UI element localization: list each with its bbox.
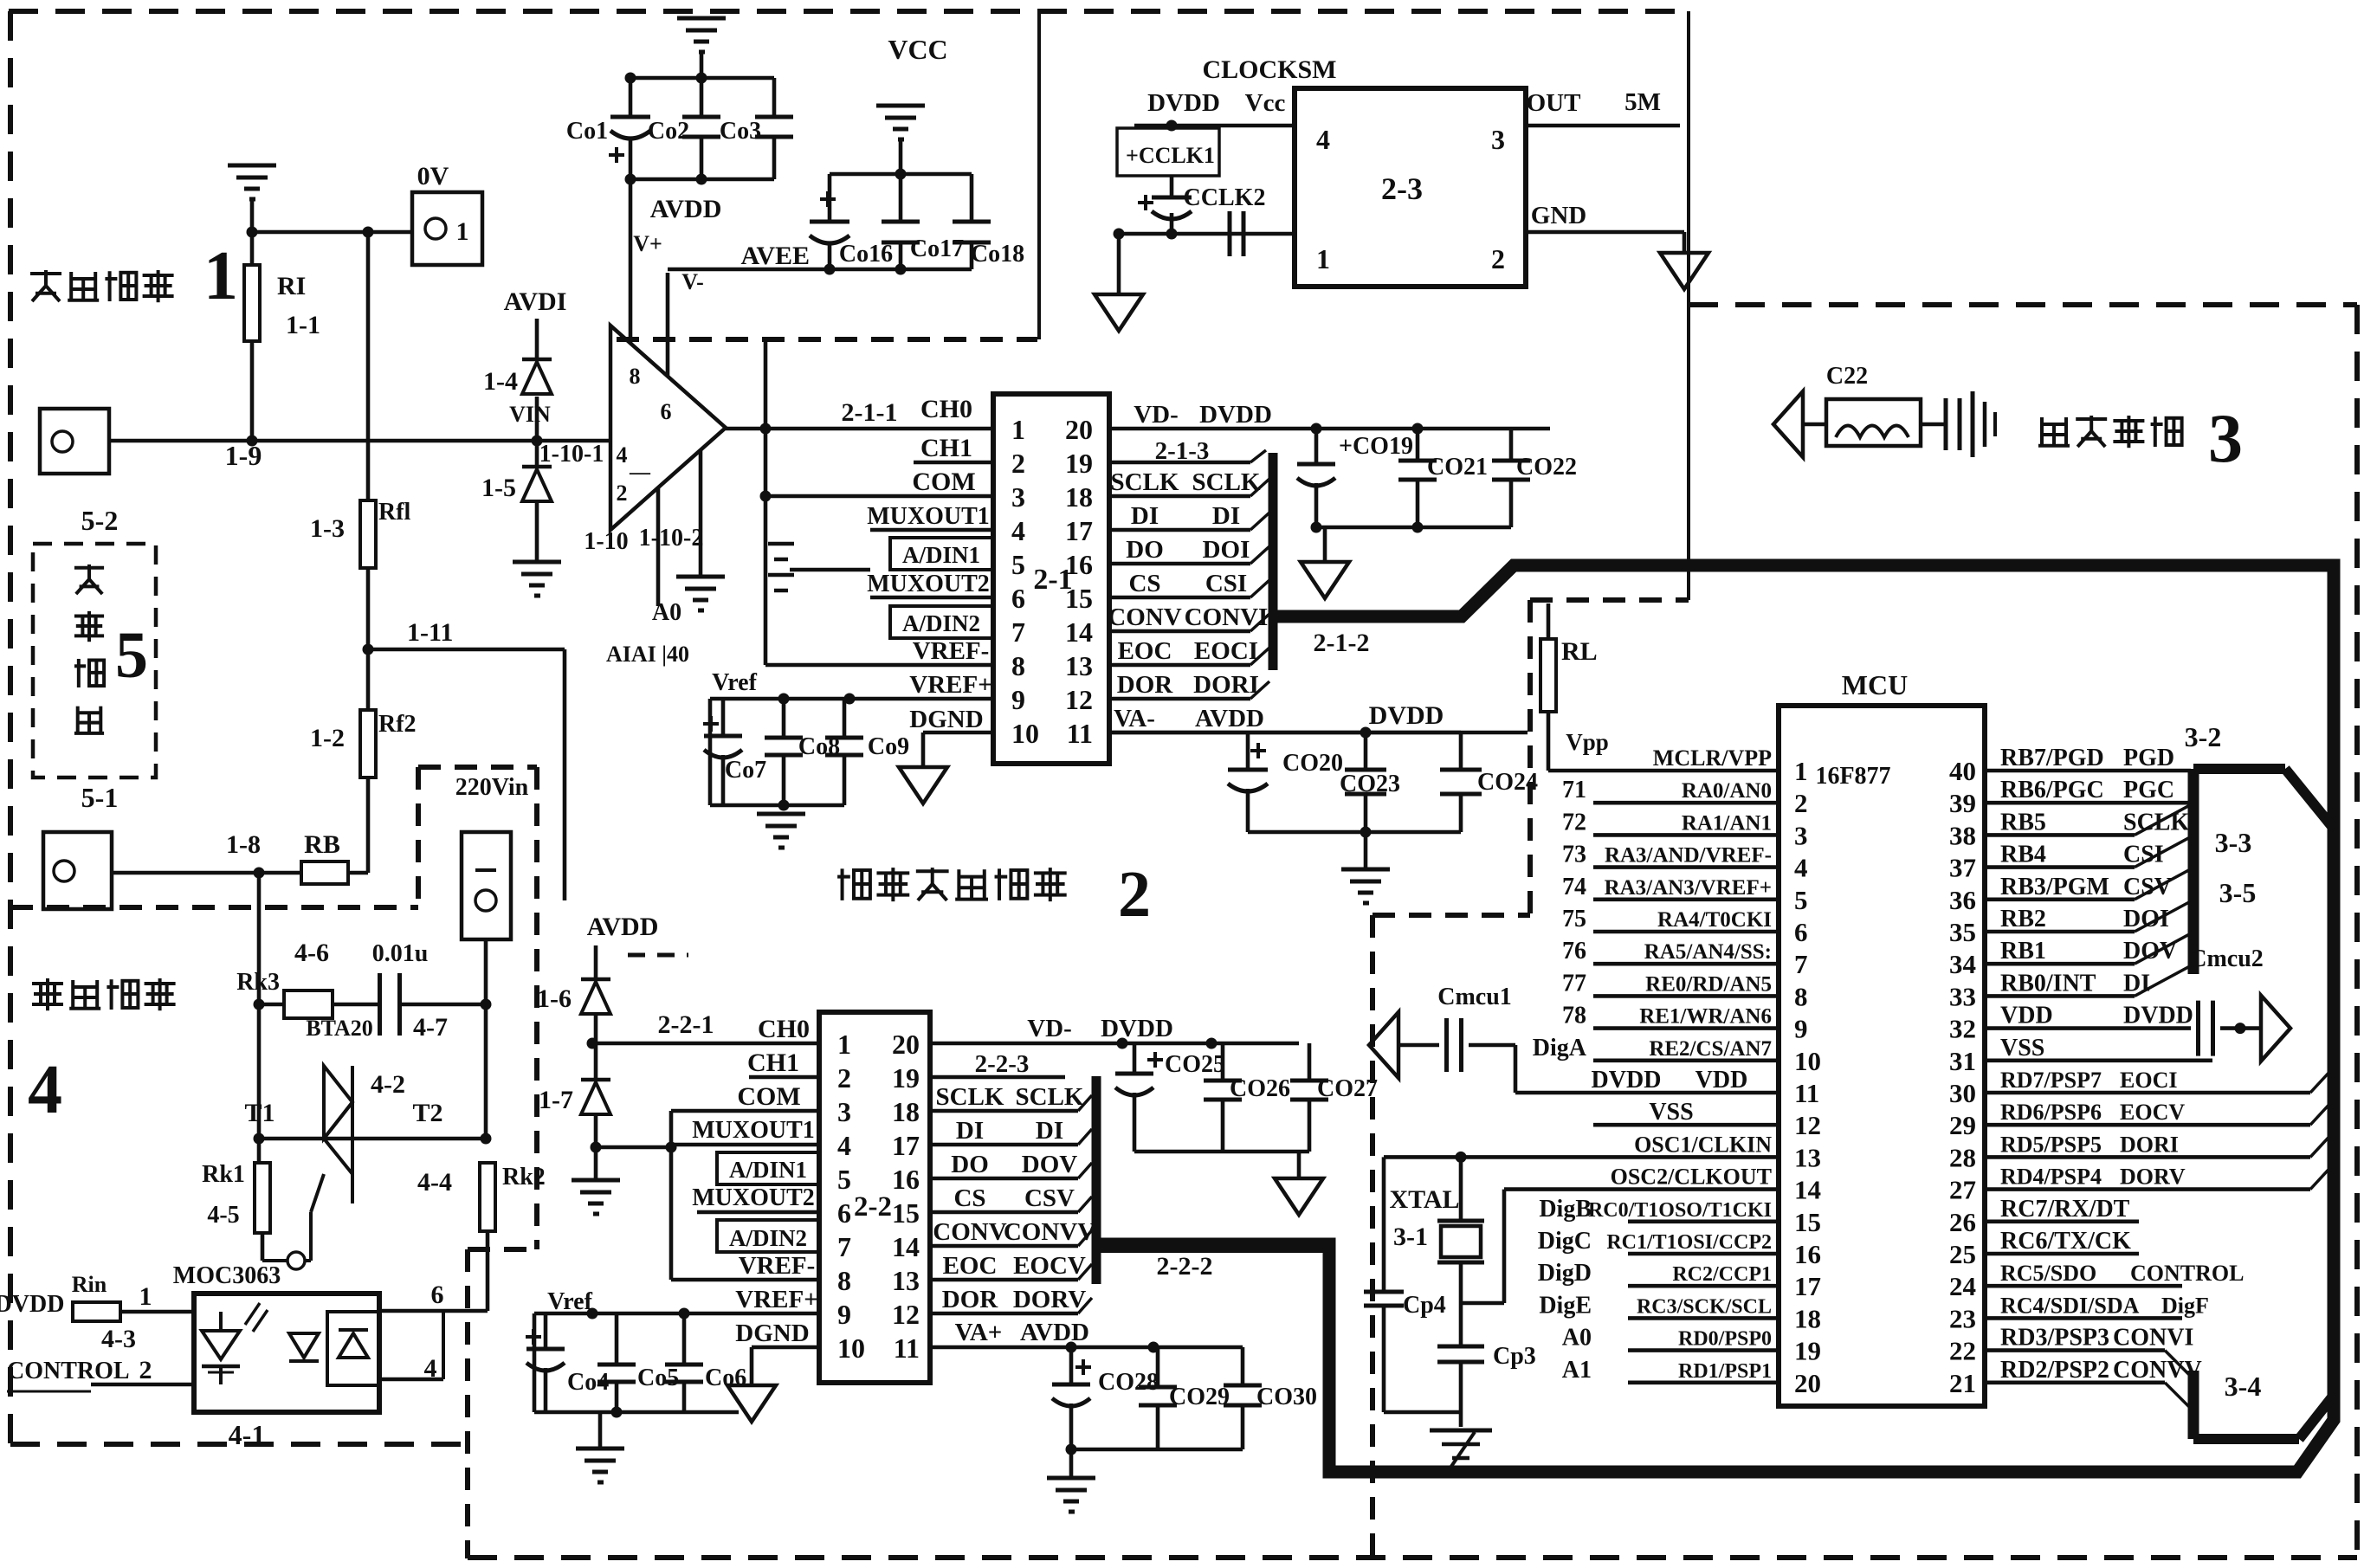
svg-text:DigB: DigB xyxy=(1539,1196,1592,1223)
svg-text:CH1: CH1 xyxy=(920,434,972,462)
svg-text:CCLK2: CCLK2 xyxy=(1184,184,1266,211)
svg-text:OSC1/CLKIN: OSC1/CLKIN xyxy=(1634,1132,1772,1157)
svg-text:EOC: EOC xyxy=(943,1252,998,1280)
svg-text:18: 18 xyxy=(1794,1303,1821,1333)
svg-text:75: 75 xyxy=(1562,906,1586,932)
svg-text:PGC: PGC xyxy=(2123,777,2174,803)
svg-text:CO28: CO28 xyxy=(1098,1369,1159,1396)
svg-text:5-1: 5-1 xyxy=(81,782,119,813)
svg-text:Co9: Co9 xyxy=(868,733,909,760)
svg-text:DigD: DigD xyxy=(1538,1260,1592,1287)
svg-text:CO25: CO25 xyxy=(1165,1051,1225,1078)
svg-text:VA+: VA+ xyxy=(955,1319,1003,1346)
svg-text:DORI: DORI xyxy=(2120,1132,2179,1157)
svg-text:30: 30 xyxy=(1949,1078,1976,1108)
svg-text:EOCV: EOCV xyxy=(2120,1100,2185,1125)
svg-text:2: 2 xyxy=(1011,448,1025,479)
svg-text:3: 3 xyxy=(1491,124,1505,155)
svg-text:VD-: VD- xyxy=(1027,1015,1072,1042)
svg-text:CO20: CO20 xyxy=(1282,750,1343,777)
svg-text:BTA20: BTA20 xyxy=(306,1016,373,1041)
svg-text:DOV: DOV xyxy=(1022,1151,1078,1178)
svg-text:RB2: RB2 xyxy=(2000,906,2046,932)
svg-text:1-6: 1-6 xyxy=(537,984,572,1013)
svg-text:EOC: EOC xyxy=(1118,637,1172,665)
svg-text:2-1-2: 2-1-2 xyxy=(1314,629,1370,657)
svg-text:VDD: VDD xyxy=(2000,1003,2053,1029)
svg-text:A1: A1 xyxy=(1562,1357,1592,1384)
svg-text:6: 6 xyxy=(1011,583,1025,614)
svg-text:20: 20 xyxy=(1794,1368,1821,1398)
svg-text:33: 33 xyxy=(1949,981,1976,1011)
svg-text:4-3: 4-3 xyxy=(101,1325,136,1353)
svg-text:4-6: 4-6 xyxy=(294,939,329,967)
svg-text:CO29: CO29 xyxy=(1169,1384,1230,1410)
svg-text:VIN: VIN xyxy=(509,402,551,427)
svg-text:1-11: 1-11 xyxy=(407,618,453,647)
svg-text:DOI: DOI xyxy=(2123,906,2169,932)
svg-text:73: 73 xyxy=(1562,842,1586,868)
svg-text:7: 7 xyxy=(1794,949,1808,979)
svg-text:3-4: 3-4 xyxy=(2225,1371,2262,1402)
svg-text:RC7/RX/DT: RC7/RX/DT xyxy=(2000,1196,2130,1223)
svg-text:8: 8 xyxy=(1794,981,1808,1011)
svg-text:RC0/T1OSO/T1CKI: RC0/T1OSO/T1CKI xyxy=(1588,1199,1772,1222)
svg-text:14: 14 xyxy=(892,1231,920,1262)
svg-text:CO30: CO30 xyxy=(1256,1384,1317,1410)
svg-text:RA1/AN1: RA1/AN1 xyxy=(1682,811,1772,835)
svg-text:5-2: 5-2 xyxy=(81,505,119,536)
svg-text:1: 1 xyxy=(837,1029,851,1060)
svg-text:MCLR/VPP: MCLR/VPP xyxy=(1653,745,1772,771)
svg-text:2: 2 xyxy=(837,1062,851,1094)
svg-text:11: 11 xyxy=(1794,1078,1819,1108)
svg-text:5: 5 xyxy=(837,1164,851,1195)
svg-text:Rf2: Rf2 xyxy=(378,711,417,738)
svg-text:13: 13 xyxy=(892,1265,920,1296)
svg-text:A/DIN2: A/DIN2 xyxy=(902,610,980,636)
svg-text:76: 76 xyxy=(1562,938,1586,965)
svg-text:23: 23 xyxy=(1949,1303,1976,1333)
svg-text:DigF: DigF xyxy=(2161,1293,2209,1318)
svg-text:AVDI: AVDI xyxy=(504,287,567,316)
svg-text:Vref: Vref xyxy=(712,669,757,696)
svg-text:2: 2 xyxy=(617,481,628,506)
svg-text:VD-: VD- xyxy=(1134,401,1179,429)
svg-text:9: 9 xyxy=(837,1299,851,1330)
svg-text:220Vin: 220Vin xyxy=(455,774,529,801)
svg-text:AIAI |40: AIAI |40 xyxy=(606,642,689,667)
svg-text:DVDD: DVDD xyxy=(2123,1003,2193,1029)
svg-text:3: 3 xyxy=(1011,481,1025,513)
svg-text:CO26: CO26 xyxy=(1230,1075,1290,1102)
svg-text:Co17: Co17 xyxy=(910,236,964,262)
svg-text:DVDD: DVDD xyxy=(1199,401,1272,429)
svg-text:CSV: CSV xyxy=(2123,874,2172,900)
svg-text:DORI: DORI xyxy=(1193,671,1259,699)
svg-text:DI: DI xyxy=(1036,1117,1063,1145)
svg-text:DGND: DGND xyxy=(735,1320,809,1347)
svg-text:Co6: Co6 xyxy=(705,1365,746,1391)
svg-text:A/DIN2: A/DIN2 xyxy=(729,1225,807,1251)
svg-text:EOCI: EOCI xyxy=(1194,637,1258,665)
svg-text:CH0: CH0 xyxy=(920,395,972,423)
svg-text:CO24: CO24 xyxy=(1477,769,1538,796)
svg-text:SCLK: SCLK xyxy=(1192,468,1261,496)
svg-text:10: 10 xyxy=(1011,718,1039,749)
svg-text:4-1: 4-1 xyxy=(229,1419,266,1450)
svg-text:11: 11 xyxy=(1067,718,1093,749)
svg-text:40: 40 xyxy=(1949,756,1976,786)
svg-text:1-9: 1-9 xyxy=(225,440,262,471)
svg-text:VREF-: VREF- xyxy=(739,1252,816,1280)
svg-text:3-5: 3-5 xyxy=(2219,877,2257,908)
svg-text:AVDD: AVDD xyxy=(587,913,659,941)
svg-text:VREF+: VREF+ xyxy=(735,1286,817,1313)
svg-text:AVDD: AVDD xyxy=(1195,705,1264,732)
svg-text:29: 29 xyxy=(1949,1110,1976,1140)
svg-text:MUXOUT2: MUXOUT2 xyxy=(867,571,990,597)
svg-text:DVDD: DVDD xyxy=(1369,701,1444,730)
svg-text:10: 10 xyxy=(1794,1046,1821,1076)
svg-text:12: 12 xyxy=(1065,684,1093,715)
svg-text:4: 4 xyxy=(424,1354,437,1383)
svg-text:Vpp: Vpp xyxy=(1566,729,1609,755)
svg-text:CO23: CO23 xyxy=(1340,771,1400,797)
svg-text:RA4/T0CKI: RA4/T0CKI xyxy=(1657,908,1772,932)
svg-text:5: 5 xyxy=(1011,549,1025,580)
svg-text:RB3/PGM: RB3/PGM xyxy=(2000,874,2109,900)
svg-text:RA5/AN4/SS:: RA5/AN4/SS: xyxy=(1644,940,1772,964)
svg-text:RD5/PSP5: RD5/PSP5 xyxy=(2000,1132,2102,1157)
svg-text:RA0/AN0: RA0/AN0 xyxy=(1682,779,1772,803)
svg-text:CSI: CSI xyxy=(1205,570,1247,597)
svg-text:DVDD: DVDD xyxy=(0,1291,64,1318)
svg-text:1-3: 1-3 xyxy=(310,514,345,543)
svg-text:Rk2: Rk2 xyxy=(502,1164,546,1191)
svg-text:Co5: Co5 xyxy=(637,1365,679,1391)
svg-text:4: 4 xyxy=(1011,515,1025,546)
svg-text:OUT: OUT xyxy=(1527,89,1581,117)
svg-text:AVDD: AVDD xyxy=(1020,1319,1089,1346)
svg-text:RI: RI xyxy=(277,272,306,300)
svg-text:RC5/SDO: RC5/SDO xyxy=(2000,1261,2096,1286)
svg-text:2-1-1: 2-1-1 xyxy=(842,398,898,427)
svg-text:Co16: Co16 xyxy=(839,241,893,268)
svg-text:MUXOUT1: MUXOUT1 xyxy=(692,1117,815,1144)
svg-text:4-5: 4-5 xyxy=(207,1202,239,1229)
svg-text:A0: A0 xyxy=(1562,1325,1592,1352)
svg-text:2-2-2: 2-2-2 xyxy=(1157,1252,1213,1281)
svg-text:MOC3063: MOC3063 xyxy=(173,1262,281,1289)
svg-text:24: 24 xyxy=(1949,1271,1976,1301)
svg-text:26: 26 xyxy=(1949,1207,1976,1237)
svg-text:8: 8 xyxy=(1011,650,1025,681)
svg-text:4: 4 xyxy=(1794,853,1808,883)
svg-text:1: 1 xyxy=(1794,756,1808,786)
svg-text:+CCLK1: +CCLK1 xyxy=(1126,143,1215,168)
svg-text:DVDD: DVDD xyxy=(1101,1015,1173,1042)
svg-text:2-2-3: 2-2-3 xyxy=(975,1050,1030,1078)
svg-text:77: 77 xyxy=(1562,970,1586,997)
svg-text:—: — xyxy=(629,461,651,484)
svg-text:74: 74 xyxy=(1562,874,1586,900)
svg-text:RD3/PSP3: RD3/PSP3 xyxy=(2000,1325,2109,1352)
svg-text:17: 17 xyxy=(892,1130,920,1161)
svg-text:4: 4 xyxy=(1316,124,1330,155)
svg-text:15: 15 xyxy=(1065,583,1093,614)
svg-text:Co1: Co1 xyxy=(566,118,608,145)
svg-text:CS: CS xyxy=(953,1184,985,1212)
svg-text:RB1: RB1 xyxy=(2000,938,2046,965)
svg-text:V+: V+ xyxy=(633,231,662,256)
svg-text:GND: GND xyxy=(1531,202,1586,229)
svg-text:MCU: MCU xyxy=(1842,669,1908,700)
svg-text:20: 20 xyxy=(1065,414,1093,445)
svg-text:5: 5 xyxy=(115,619,148,692)
svg-text:0.01u: 0.01u xyxy=(372,940,429,967)
svg-text:9: 9 xyxy=(1794,1014,1808,1044)
svg-text:DI: DI xyxy=(956,1117,984,1145)
svg-text:VDD: VDD xyxy=(1695,1067,1748,1094)
svg-text:DI: DI xyxy=(2123,970,2150,997)
svg-text:DOI: DOI xyxy=(1203,536,1250,564)
svg-text:15: 15 xyxy=(892,1197,920,1229)
svg-text:DigA: DigA xyxy=(1533,1035,1587,1061)
svg-text:MUXOUT1: MUXOUT1 xyxy=(867,503,990,530)
svg-text:CONTROL: CONTROL xyxy=(7,1358,130,1384)
svg-text:14: 14 xyxy=(1794,1175,1821,1205)
svg-text:Co18: Co18 xyxy=(971,241,1024,268)
svg-text:RB5: RB5 xyxy=(2000,809,2046,836)
svg-text:2-3: 2-3 xyxy=(1381,171,1423,206)
svg-text:A/DIN1: A/DIN1 xyxy=(729,1157,807,1183)
svg-text:EOCV: EOCV xyxy=(1013,1252,1086,1280)
svg-text:DO: DO xyxy=(1126,536,1164,564)
svg-text:+CO19: +CO19 xyxy=(1339,433,1413,460)
svg-text:V-: V- xyxy=(681,269,704,294)
svg-text:1-2: 1-2 xyxy=(310,724,345,752)
svg-text:SCLK: SCLK xyxy=(936,1083,1004,1111)
svg-text:Co4: Co4 xyxy=(567,1369,609,1396)
svg-text:DVDD: DVDD xyxy=(1147,89,1220,117)
svg-text:A0: A0 xyxy=(652,599,681,626)
svg-text:RB0/INT: RB0/INT xyxy=(2000,970,2096,997)
svg-text:4-7: 4-7 xyxy=(413,1013,448,1042)
svg-text:1: 1 xyxy=(1011,414,1025,445)
svg-text:Vcc: Vcc xyxy=(1245,89,1286,117)
svg-text:RD0/PSP0: RD0/PSP0 xyxy=(1678,1328,1772,1351)
svg-text:RA3/AND/VREF-: RA3/AND/VREF- xyxy=(1605,844,1772,868)
svg-text:DigE: DigE xyxy=(1539,1292,1592,1319)
svg-text:DOV: DOV xyxy=(2123,938,2177,965)
svg-text:10: 10 xyxy=(837,1332,865,1364)
svg-text:25: 25 xyxy=(1949,1239,1976,1269)
svg-text:13: 13 xyxy=(1794,1142,1821,1172)
svg-text:19: 19 xyxy=(1794,1336,1821,1366)
svg-text:0V: 0V xyxy=(417,162,449,190)
svg-text:2: 2 xyxy=(1491,243,1505,274)
svg-text:DORV: DORV xyxy=(2120,1165,2186,1190)
svg-text:1-8: 1-8 xyxy=(226,830,261,859)
svg-text:Cmcu2: Cmcu2 xyxy=(2189,945,2264,972)
svg-text:21: 21 xyxy=(1949,1368,1976,1398)
svg-text:2: 2 xyxy=(1794,788,1808,818)
svg-text:CLOCKSM: CLOCKSM xyxy=(1202,55,1336,84)
svg-text:RC6/TX/CK: RC6/TX/CK xyxy=(2000,1228,2131,1255)
svg-text:38: 38 xyxy=(1949,820,1976,850)
svg-text:17: 17 xyxy=(1794,1271,1821,1301)
svg-text:RD6/PSP6: RD6/PSP6 xyxy=(2000,1100,2102,1125)
svg-text:RD1/PSP1: RD1/PSP1 xyxy=(1678,1360,1772,1383)
svg-text:2-2-1: 2-2-1 xyxy=(658,1010,714,1039)
svg-text:1-10-1: 1-10-1 xyxy=(539,441,604,468)
svg-text:DO: DO xyxy=(951,1151,989,1178)
svg-text:RD7/PSP7: RD7/PSP7 xyxy=(2000,1068,2102,1093)
svg-text:11: 11 xyxy=(894,1332,920,1364)
svg-text:3: 3 xyxy=(2208,401,2243,477)
svg-text:37: 37 xyxy=(1949,853,1976,883)
svg-text:78: 78 xyxy=(1562,1003,1586,1029)
svg-text:15: 15 xyxy=(1794,1207,1821,1237)
svg-text:T2: T2 xyxy=(412,1099,442,1127)
svg-text:5: 5 xyxy=(1794,885,1808,915)
svg-text:7: 7 xyxy=(1011,616,1025,648)
svg-text:1: 1 xyxy=(203,238,238,314)
svg-text:DOR: DOR xyxy=(1117,671,1174,699)
svg-text:3-2: 3-2 xyxy=(2185,721,2222,752)
svg-text:3-1: 3-1 xyxy=(1393,1223,1428,1251)
svg-text:T1: T1 xyxy=(244,1099,275,1127)
svg-text:3-3: 3-3 xyxy=(2215,827,2252,858)
svg-text:6: 6 xyxy=(431,1281,444,1309)
svg-text:DI: DI xyxy=(1212,502,1240,530)
svg-text:EOCI: EOCI xyxy=(2120,1068,2177,1093)
svg-text:RB7/PGD: RB7/PGD xyxy=(2000,745,2104,771)
svg-text:CONVI: CONVI xyxy=(2113,1325,2193,1352)
svg-text:19: 19 xyxy=(1065,448,1093,479)
svg-text:6: 6 xyxy=(837,1197,851,1229)
svg-text:2: 2 xyxy=(1118,858,1151,931)
svg-text:1: 1 xyxy=(139,1282,152,1311)
svg-text:XTAL: XTAL xyxy=(1389,1185,1459,1214)
svg-text:CO21: CO21 xyxy=(1427,454,1488,481)
svg-text:13: 13 xyxy=(1065,650,1093,681)
svg-text:Cp4: Cp4 xyxy=(1403,1292,1446,1319)
svg-text:AVEE: AVEE xyxy=(741,242,810,270)
svg-text:22: 22 xyxy=(1949,1336,1976,1366)
svg-text:RC3/SCK/SCL: RC3/SCK/SCL xyxy=(1637,1295,1772,1318)
svg-text:9: 9 xyxy=(1011,684,1025,715)
svg-text:RB4: RB4 xyxy=(2000,842,2046,868)
svg-text:4: 4 xyxy=(617,442,628,468)
svg-text:DVDD: DVDD xyxy=(1592,1067,1662,1094)
svg-text:12: 12 xyxy=(892,1299,920,1330)
svg-text:RL: RL xyxy=(1561,637,1598,666)
svg-text:4: 4 xyxy=(28,1052,62,1128)
svg-text:CONV: CONV xyxy=(933,1218,1006,1246)
svg-text:PGD: PGD xyxy=(2123,745,2174,771)
svg-text:4-2: 4-2 xyxy=(371,1070,405,1099)
svg-text:4: 4 xyxy=(837,1130,851,1161)
svg-text:1: 1 xyxy=(456,217,469,246)
svg-text:1-5: 1-5 xyxy=(481,474,516,502)
svg-text:RE0/RD/AN5: RE0/RD/AN5 xyxy=(1645,972,1772,996)
svg-text:CS: CS xyxy=(1128,570,1160,597)
svg-text:Cp3: Cp3 xyxy=(1493,1343,1536,1370)
svg-text:Vref: Vref xyxy=(547,1288,592,1315)
svg-text:RB6/PGC: RB6/PGC xyxy=(2000,777,2104,803)
svg-text:VCC: VCC xyxy=(888,34,947,65)
svg-text:RE2/CS/AN7: RE2/CS/AN7 xyxy=(1649,1037,1772,1061)
svg-text:2-2: 2-2 xyxy=(854,1191,892,1223)
svg-text:8: 8 xyxy=(837,1265,851,1296)
svg-text:VREF-: VREF- xyxy=(913,637,990,665)
svg-text:18: 18 xyxy=(892,1096,920,1127)
svg-text:VSS: VSS xyxy=(1649,1099,1693,1126)
svg-text:Co2: Co2 xyxy=(648,118,689,145)
svg-text:32: 32 xyxy=(1949,1014,1976,1044)
svg-text:VREF+: VREF+ xyxy=(909,671,991,699)
svg-text:RE1/WR/AN6: RE1/WR/AN6 xyxy=(1639,1005,1772,1029)
svg-text:CONTROL: CONTROL xyxy=(2130,1261,2244,1286)
svg-text:20: 20 xyxy=(892,1029,920,1060)
svg-text:DI: DI xyxy=(1131,502,1159,530)
svg-text:CO27: CO27 xyxy=(1317,1075,1378,1102)
svg-text:6: 6 xyxy=(1794,917,1808,947)
svg-text:35: 35 xyxy=(1949,917,1976,947)
svg-text:1-1: 1-1 xyxy=(286,311,320,339)
svg-text:31: 31 xyxy=(1949,1046,1976,1076)
svg-text:1-4: 1-4 xyxy=(483,367,518,396)
svg-text:RA3/AN3/VREF+: RA3/AN3/VREF+ xyxy=(1605,876,1772,900)
svg-text:OSC2/CLKOUT: OSC2/CLKOUT xyxy=(1611,1165,1772,1190)
svg-text:4-4: 4-4 xyxy=(417,1168,452,1197)
svg-text:1-10: 1-10 xyxy=(584,528,628,555)
svg-text:RD4/PSP4: RD4/PSP4 xyxy=(2000,1165,2102,1190)
svg-text:VSS: VSS xyxy=(2000,1035,2044,1061)
svg-text:14: 14 xyxy=(1065,616,1093,648)
svg-text:MUXOUT2: MUXOUT2 xyxy=(692,1184,815,1211)
svg-text:5M: 5M xyxy=(1624,88,1661,116)
svg-text:27: 27 xyxy=(1949,1175,1976,1205)
svg-text:COM: COM xyxy=(737,1082,800,1111)
svg-text:CH0: CH0 xyxy=(758,1015,810,1043)
svg-text:COM: COM xyxy=(912,468,975,496)
svg-text:RB: RB xyxy=(304,830,340,859)
svg-text:36: 36 xyxy=(1949,885,1976,915)
svg-text:Cmcu1: Cmcu1 xyxy=(1437,984,1512,1010)
svg-text:39: 39 xyxy=(1949,788,1976,818)
svg-text:16: 16 xyxy=(1065,549,1093,580)
svg-text:DGND: DGND xyxy=(909,706,983,733)
svg-text:16: 16 xyxy=(1794,1239,1821,1269)
svg-text:AVDD: AVDD xyxy=(650,195,722,223)
svg-text:16: 16 xyxy=(892,1164,920,1195)
svg-text:RC2/CCP1: RC2/CCP1 xyxy=(1672,1263,1772,1286)
svg-text:1: 1 xyxy=(1316,243,1330,274)
svg-text:28: 28 xyxy=(1949,1142,1976,1172)
svg-text:DOR: DOR xyxy=(942,1286,999,1313)
svg-text:RD2/PSP2: RD2/PSP2 xyxy=(2000,1357,2109,1384)
svg-text:Rk1: Rk1 xyxy=(202,1161,245,1188)
svg-text:3: 3 xyxy=(1794,820,1808,850)
svg-text:CO22: CO22 xyxy=(1516,454,1577,481)
svg-text:19: 19 xyxy=(892,1062,920,1094)
svg-text:8: 8 xyxy=(630,364,641,389)
svg-text:DigC: DigC xyxy=(1538,1228,1592,1255)
svg-text:1-10-2: 1-10-2 xyxy=(639,525,704,552)
